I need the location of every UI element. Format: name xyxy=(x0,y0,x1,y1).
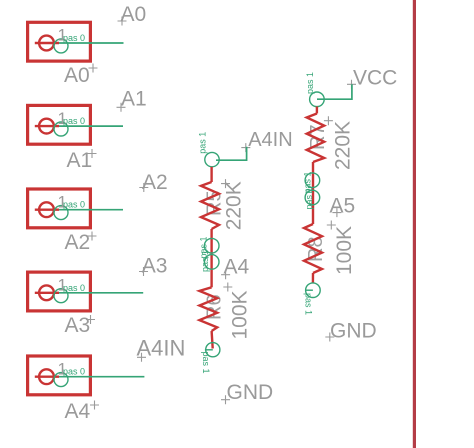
svg-text:A1: A1 xyxy=(67,149,93,172)
svg-text:pas 0: pas 0 xyxy=(63,200,85,210)
svg-text:GND: GND xyxy=(227,381,274,404)
svg-text:A4IN: A4IN xyxy=(137,336,186,361)
svg-text:A0: A0 xyxy=(64,64,90,87)
svg-text:pas 0: pas 0 xyxy=(63,116,85,126)
svg-text:pas 1: pas 1 xyxy=(304,293,314,315)
svg-text:pas 0: pas 0 xyxy=(63,283,85,293)
svg-text:A3: A3 xyxy=(65,314,91,337)
svg-text:pas 1: pas 1 xyxy=(305,72,315,94)
svg-text:100K: 100K xyxy=(229,290,252,339)
svg-text:pas 1: pas 1 xyxy=(200,250,210,272)
svg-text:A4: A4 xyxy=(65,400,91,423)
svg-text:A2: A2 xyxy=(142,171,168,194)
svg-text:GND: GND xyxy=(330,319,377,342)
svg-text:220K: 220K xyxy=(223,181,246,230)
svg-text:A2: A2 xyxy=(65,231,91,254)
svg-text:pas 0: pas 0 xyxy=(63,367,85,377)
svg-text:pas 0: pas 0 xyxy=(63,33,85,43)
svg-text:pas 1: pas 1 xyxy=(201,352,211,374)
svg-text:A0: A0 xyxy=(121,3,147,26)
svg-text:VCC: VCC xyxy=(353,67,397,90)
svg-text:A5: A5 xyxy=(330,195,356,218)
svg-text:A1: A1 xyxy=(121,87,147,110)
svg-text:A4IN: A4IN xyxy=(248,129,292,151)
svg-text:220K: 220K xyxy=(332,121,355,170)
svg-text:pas 1: pas 1 xyxy=(304,187,314,209)
svg-text:100K: 100K xyxy=(333,226,356,275)
svg-text:A4: A4 xyxy=(224,256,250,279)
svg-text:A3: A3 xyxy=(142,254,168,277)
svg-text:pas 1: pas 1 xyxy=(198,132,208,154)
